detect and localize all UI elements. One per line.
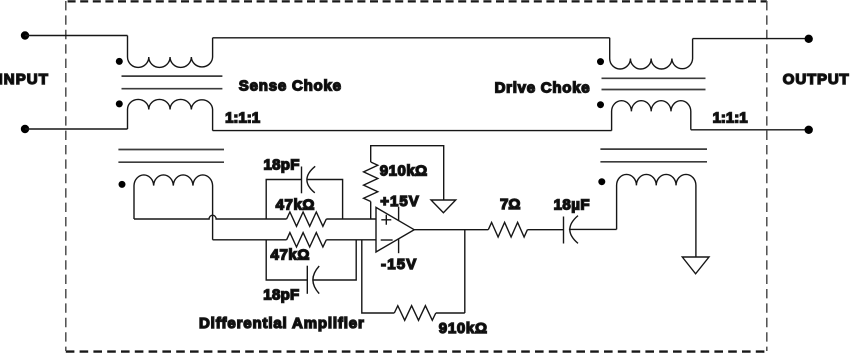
op-amp minus sign: [381, 239, 393, 241]
wire op-amp minus input (wire2): [213, 239, 287, 241]
capacitor C2 plate: [306, 266, 308, 294]
transformer T2 winding 3 (drive winding): [617, 174, 696, 257]
phase dot T2 winding 2: [597, 101, 604, 108]
svg-text:18pF: 18pF: [264, 157, 300, 174]
svg-text:1:1:1: 1:1:1: [225, 110, 260, 127]
op-amp negative supply pin: [398, 239, 400, 254]
svg-text:18pF: 18pF: [263, 287, 299, 304]
capacitor C1 18pF branch (top) wire: [266, 180, 342, 220]
dashed enclosure right border: [766, 1, 768, 351]
transformer T2 winding 1 (Drive Choke top): [610, 38, 693, 69]
INPUT terminal bottom: [21, 125, 29, 133]
core lines T1 upper pair: [122, 76, 223, 89]
op-amp plus sign: [381, 215, 391, 225]
phase dot T1 winding 1: [116, 58, 123, 65]
svg-text:7Ω: 7Ω: [500, 196, 520, 213]
svg-text:Differential Amplifier: Differential Amplifier: [199, 315, 365, 332]
wire output top: [693, 38, 809, 40]
op-amp U1 triangle: [376, 207, 414, 252]
OUTPUT terminal top: [805, 35, 813, 43]
svg-text:Drive Choke: Drive Choke: [495, 80, 591, 97]
transformer T1 winding 2 (Sense Choke middle): [128, 99, 213, 130]
core lines T2 lower pair: [600, 149, 707, 162]
wire feedback resistor to tap: [436, 312, 465, 314]
svg-text:910kΩ: 910kΩ: [439, 320, 488, 337]
svg-text:Sense Choke: Sense Choke: [239, 77, 342, 94]
svg-text:18µF: 18µF: [554, 196, 591, 213]
OUTPUT terminal bottom: [805, 126, 813, 134]
svg-text:1:1:1: 1:1:1: [713, 110, 748, 127]
wire1 right segment: [326, 218, 376, 220]
transformer T2 winding 2 (Drive Choke middle): [612, 101, 691, 131]
svg-text:INPUT: INPUT: [0, 71, 49, 88]
svg-text:910kΩ: 910kΩ: [380, 163, 428, 180]
capacitor C1 curved plate: [307, 166, 315, 193]
core lines T1 lower pair: [118, 150, 224, 163]
wire middle rail between chokes: [213, 130, 612, 132]
phase dot T1 winding 3: [119, 181, 126, 188]
dashed enclosure top border: [66, 0, 767, 2]
wire R3 stub down to plus input: [370, 202, 372, 220]
capacitor C3 18uF plate: [563, 217, 565, 244]
wire R3 top loop to ground: [371, 146, 444, 200]
capacitor C1 plate: [301, 167, 303, 194]
wire op-amp output: [414, 229, 488, 231]
transformer T1 winding 3 (sense winding): [134, 175, 213, 240]
wire op-amp plus input (wire1) with hop: [134, 215, 287, 219]
wire feedback tap from output: [464, 230, 466, 313]
wire feedback from minus input: [362, 240, 395, 313]
ground at T2 winding 3: [682, 257, 709, 274]
svg-text:47kΩ: 47kΩ: [271, 246, 310, 263]
capacitor C2 18pF branch (bottom) wire: [266, 240, 356, 280]
svg-text:OUTPUT: OUTPUT: [783, 71, 850, 88]
resistor R2 47K ohm (minus path): [287, 233, 327, 247]
capacitor C3 curved plate: [570, 216, 578, 244]
wire2 right segment: [326, 239, 376, 241]
resistor R3 910k ohm to ground (vertical): [364, 162, 378, 202]
wire output bottom: [691, 129, 809, 131]
ground near op-amp: [431, 200, 456, 213]
core lines T2 upper pair: [602, 78, 706, 89]
wire capacitor to drive winding: [569, 228, 617, 230]
wire resistor to capacitor: [527, 229, 563, 231]
phase dot T2 winding 1: [597, 58, 604, 65]
dashed enclosure left border: [65, 1, 67, 351]
phase dot T1 winding 2: [116, 100, 123, 107]
wire input top: [25, 35, 128, 37]
op-amp positive supply pin: [398, 207, 400, 221]
resistor R4 7 ohm: [488, 222, 527, 237]
wire top rail between chokes: [213, 37, 610, 39]
phase dot T2 winding 3: [598, 178, 605, 185]
svg-text:47kΩ: 47kΩ: [276, 196, 315, 213]
resistor R5 910k ohm feedback: [394, 306, 436, 321]
dashed enclosure bottom border: [66, 350, 767, 352]
transformer T1 winding 1 (Sense Choke top): [128, 36, 213, 68]
capacitor C2 curved plate: [313, 266, 319, 294]
wire input bottom: [25, 128, 128, 130]
resistor R1 47k ohm (plus path): [287, 212, 327, 226]
svg-text:+15V: +15V: [380, 193, 419, 210]
INPUT terminal top: [21, 31, 29, 39]
svg-text:-15V: -15V: [381, 256, 418, 273]
